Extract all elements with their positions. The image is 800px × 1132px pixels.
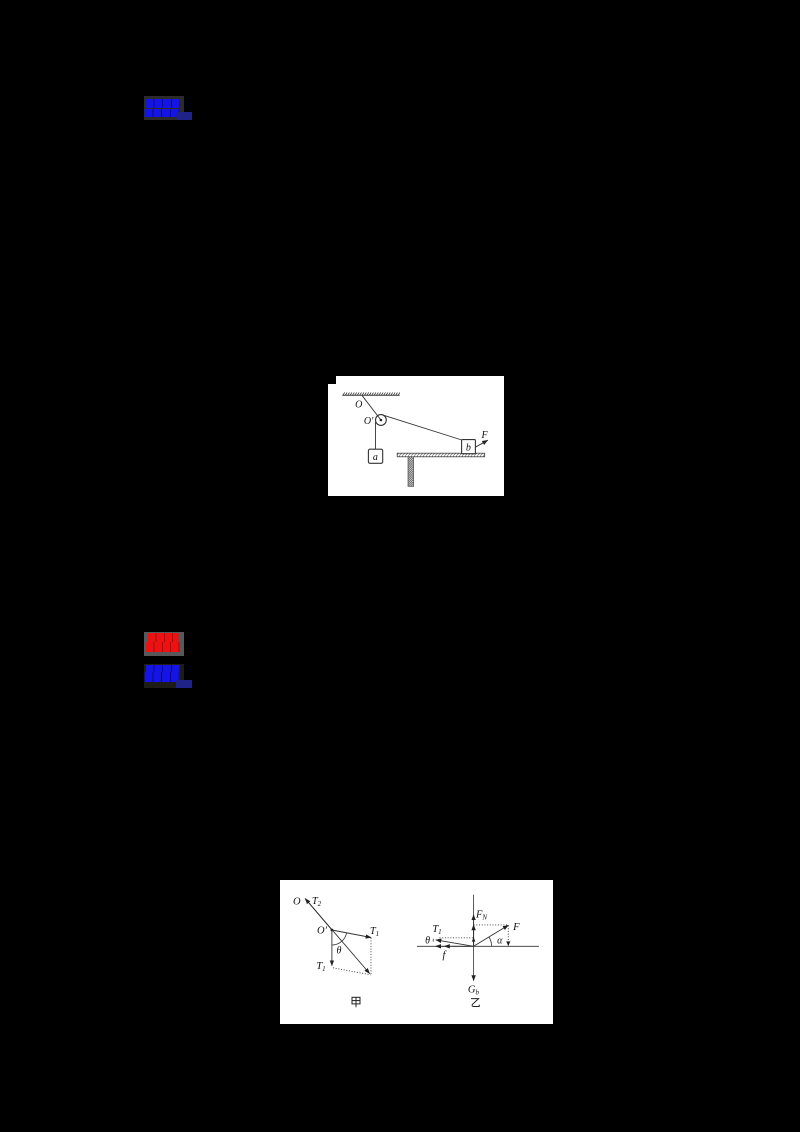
svg-text:F: F (512, 922, 520, 933)
svg-text:θ: θ (425, 935, 430, 946)
svg-text:O: O (293, 896, 301, 907)
vector T1 down (331, 930, 333, 966)
badge: red answer badge (144, 632, 184, 656)
badge top: blue glyph row 2 (145, 109, 180, 118)
resultant line through O' with arrows both ends (305, 899, 369, 974)
F_N arrow up (473, 915, 475, 947)
figure 2: force decomposition diagrams (280, 880, 553, 1024)
F vertical component arrowhead (473, 925, 475, 946)
svg-text:O: O (355, 399, 362, 410)
badge bottom: navy sub-rect (176, 680, 192, 688)
node O' dot (331, 929, 334, 932)
svg-text:θ: θ (337, 946, 342, 957)
badge bottom: blue glyph row 2 (145, 672, 180, 682)
pulley O' (376, 414, 387, 425)
ceiling hatching (343, 392, 400, 395)
badge: blue analysis badge (bottom) (144, 664, 184, 688)
svg-text:b: b (466, 442, 471, 453)
wire string pulley to block a (375, 422, 377, 449)
caption jia glyph (352, 997, 360, 1007)
vector f along axis (444, 945, 473, 947)
badge red: glyph row 1 (148, 633, 179, 642)
T1 horizontal component arrowhead (436, 945, 445, 947)
badge bottom: blue glyph row 1 (146, 665, 180, 672)
dotted projection horizontal to F tip (474, 924, 509, 926)
arrow tip toward O (305, 899, 332, 930)
block a (368, 449, 382, 463)
small theta arc at T1 tip (432, 939, 434, 942)
svg-text:α: α (497, 936, 503, 947)
angle theta arc (332, 933, 347, 945)
vector T1 (436, 940, 474, 946)
notch black corner (328, 376, 336, 384)
table top (397, 453, 485, 457)
horizontal axis (417, 945, 539, 947)
dotted projection vertical from F tip (507, 926, 509, 946)
figure 1: pulley and table diagram (328, 376, 504, 496)
wire rope pulley to block b (383, 415, 462, 440)
table leg (408, 457, 414, 487)
vertical axis line (473, 895, 475, 981)
ceiling line (342, 394, 399, 396)
caption yi glyph (471, 999, 479, 1007)
dotted parallelogram side vertical (370, 938, 372, 976)
vector T1 right (332, 930, 371, 938)
wire string O to pulley (362, 395, 381, 419)
block b (462, 439, 476, 453)
T1 vertical component arrowhead on axis (472, 937, 476, 941)
svg-text:O′: O′ (364, 416, 374, 427)
svg-text:O′: O′ (317, 926, 328, 937)
badge top: blue glyph row 1 (146, 99, 180, 108)
angle alpha arc (489, 937, 492, 946)
dotted from T1 tip to vertical axis (440, 937, 474, 939)
badge red: glyph row 2 (146, 642, 180, 652)
dotted parallelogram side diagonal (333, 968, 371, 975)
badge top: navy sub-rect (177, 112, 192, 120)
svg-text:F: F (481, 430, 489, 441)
force F arrow (475, 440, 487, 447)
badge: blue answer-link badge (top) (144, 96, 184, 120)
vector F (474, 925, 509, 946)
svg-text:a: a (373, 452, 378, 463)
